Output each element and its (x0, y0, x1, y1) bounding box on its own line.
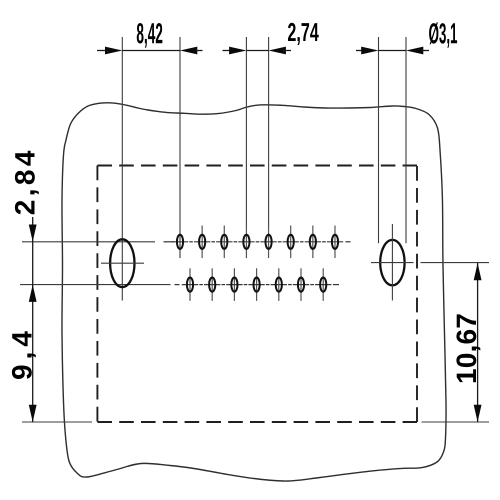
pad B4 (bottom row) (248, 268, 264, 301)
pad B2 (bottom row) (204, 268, 220, 301)
pad A2 (top row) (194, 226, 210, 259)
dimension 2,84 / 9,4 vertical line (29, 217, 37, 422)
center line dash between A6/A7 (300, 241, 304, 243)
extension line x=406 (right hole right tangent) (405, 37, 407, 243)
housing outline (wavy) (62, 103, 446, 481)
label 2,84 (15, 151, 39, 215)
label 8,42 (137, 23, 163, 48)
center line dash between B5/B6 (288, 284, 292, 286)
pad B7 (bottom row) (315, 268, 331, 301)
extension line y=421.5 (cutout bottom) (22, 421, 92, 423)
pad B3 (bottom row) (226, 268, 242, 301)
extension line group: top dimension verticals (122, 37, 406, 301)
dimension 8,42 (97, 47, 203, 55)
pad A6 (top row) (283, 226, 299, 259)
label 9,4 (12, 331, 36, 379)
extension line x=378.5 (right hole left tangent) (378, 37, 380, 243)
extension line y=262.6 (right hole center) (421, 262, 490, 264)
center line dash between A2/A3 (211, 241, 215, 243)
extension line x=180 (first pad) (179, 37, 181, 258)
extension line x=268.6 (pad 5) (268, 37, 270, 226)
label 2,74 (288, 23, 319, 45)
dashed panel cutout rectangle (97, 166, 417, 423)
center line dash between A1/A2 (189, 241, 193, 243)
dimension 2,74 (223, 47, 292, 55)
label Ø3,1 (429, 22, 457, 47)
center line dash between B4/B5 (266, 284, 270, 286)
pad B1 (bottom row) (182, 268, 198, 301)
mounting hole M2 (right) (371, 224, 414, 301)
center line dash between A5/A6 (278, 241, 282, 243)
pad A7 (top row) (305, 226, 321, 259)
dimension Ø3,1 (356, 47, 429, 55)
pad A1 (top row) (172, 226, 188, 259)
extension line group: left horizontals (20, 242, 171, 422)
center line dash between A7/A8 (322, 241, 326, 243)
center line dash between A3/A4 (234, 241, 238, 243)
top pad row center line dashes (164, 241, 351, 243)
crosshair M1 (101, 262, 144, 264)
dimension 10,67 vertical line (474, 263, 482, 422)
extension line y=421.5 right (422, 421, 490, 423)
pad B5 (bottom row) (271, 268, 287, 301)
center line dash between B2/B3 (222, 284, 226, 286)
extension line x=246.4 (pad 4) (245, 37, 247, 226)
extension line y=284.6 (bottom pad row) (20, 284, 171, 286)
center line dash between B6/B7 (310, 284, 314, 286)
label 10,67 (456, 314, 480, 382)
pad A3 (top row) (216, 226, 232, 259)
crosshair M2 (371, 262, 414, 264)
pad A8 (top row) (327, 226, 343, 259)
pad A4 (top row) (238, 226, 254, 259)
center line dash between B3/B4 (244, 284, 248, 286)
extension line x=122.3 (left mounting hole center) (121, 37, 123, 301)
mounting hole M1 (left) (101, 239, 144, 287)
center line dash between B1/B2 (199, 284, 203, 286)
bottom pad row center line dashes (175, 284, 340, 286)
pad A5 (top row) (260, 226, 276, 259)
pad B6 (bottom row) (293, 268, 309, 301)
center line dash between A4/A5 (256, 241, 260, 243)
extension line group: right horizontals (421, 263, 490, 422)
extension line y=241.8 (top pad row) (22, 241, 155, 243)
